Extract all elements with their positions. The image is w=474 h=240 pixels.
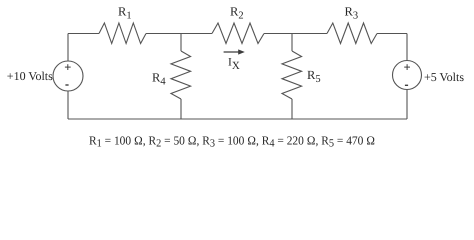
voltage source V2 circle [393,61,422,90]
resistor R5 [282,51,302,99]
svg-text:R2: R2 [230,4,244,21]
wire R2 to R3 [264,33,327,35]
resistor R3 [327,23,377,44]
V2 minus sign [405,84,408,86]
wire top-right segment [377,33,407,35]
V1 minus sign [65,84,68,86]
current arrow Ix [224,49,245,54]
V2 plus sign [404,64,410,70]
wire R5 bottom stub [291,99,293,119]
svg-text:R4: R4 [152,70,166,87]
wire left vertical upper [67,34,69,62]
node B stub R5 top [291,34,293,52]
wire right vertical lower [406,90,408,120]
svg-text:+10 Volts: +10 Volts [7,69,53,83]
svg-text:IX: IX [228,56,240,72]
svg-text:R5: R5 [307,68,321,85]
wire R1 to R2 [146,33,212,35]
voltage source V1 circle [53,61,83,91]
wire right vertical upper [406,34,408,61]
svg-text:R3: R3 [345,4,359,21]
resistor R4 [171,51,191,99]
node A stub R4 top [180,34,182,52]
V1 plus sign [65,64,71,70]
wire bottom [68,118,407,120]
svg-text:+5 Volts: +5 Volts [424,70,464,84]
svg-text:R1 = 100 Ω, R2 = 50 Ω, R3 = 10: R1 = 100 Ω, R2 = 50 Ω, R3 = 100 Ω, R4 = … [89,134,375,150]
wire left vertical lower [67,91,69,119]
resistor R2 [212,23,264,44]
svg-text:R1: R1 [118,4,132,21]
wire R4 bottom stub [180,99,182,119]
wire top-left segment [68,33,99,35]
resistor R1 [99,23,146,44]
